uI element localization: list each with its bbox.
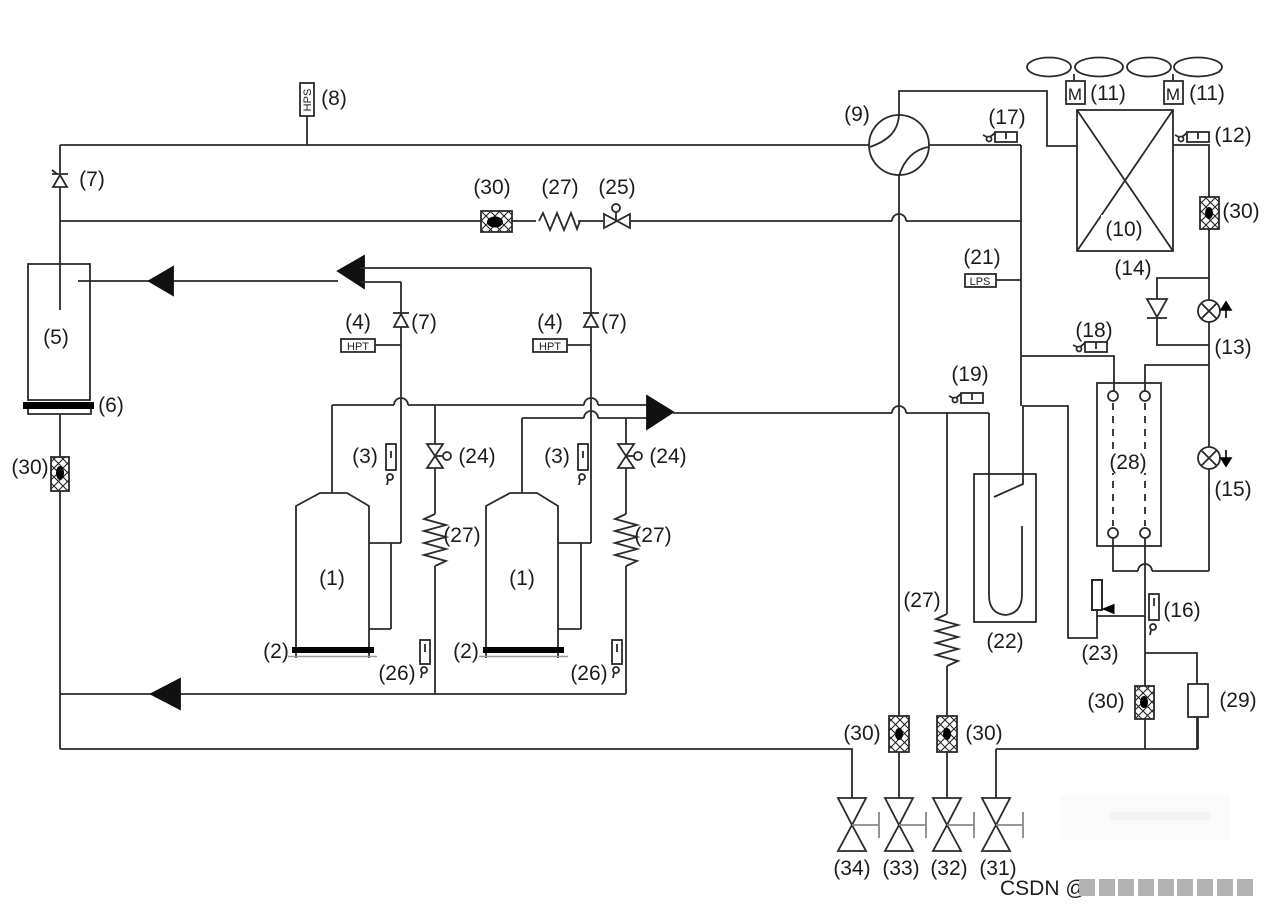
flow arrow left on y=694	[151, 679, 180, 709]
filter drier (30) right bottom	[1135, 686, 1154, 719]
svg-text:(6): (6)	[98, 394, 124, 417]
muffler (29)	[1188, 684, 1208, 717]
flow arrow left on y=281	[149, 267, 173, 295]
wire x=1209 valve (13) to (15)	[1208, 322, 1210, 447]
wire top discharge line y=145 right of valve (9)	[929, 144, 1021, 146]
svg-text:(29): (29)	[1219, 689, 1256, 712]
wire accumulator inlet x=1023	[994, 406, 1023, 497]
svg-text:(5): (5)	[43, 326, 69, 349]
wire (9) top to condenser	[899, 91, 1077, 146]
filter drier (30) bottom 1	[889, 716, 909, 752]
service valve (32)	[933, 798, 974, 851]
svg-text:HPS: HPS	[302, 89, 314, 112]
sensor (19)	[949, 393, 983, 403]
coil (27) bottom	[936, 614, 958, 666]
svg-text:(30): (30)	[1087, 690, 1124, 713]
wire suction line y=413 to accumulator	[673, 412, 989, 414]
svg-text:(16): (16)	[1163, 599, 1200, 622]
svg-text:(1): (1)	[509, 567, 535, 590]
flow arrow right to accumulator	[647, 396, 673, 429]
svg-text:M: M	[1068, 85, 1082, 104]
four-way reversing valve (9)	[869, 115, 929, 176]
svg-text:(7): (7)	[411, 311, 437, 334]
wire bottom line y=749	[60, 749, 852, 798]
svg-text:(32): (32)	[930, 857, 967, 880]
wire jump over x=591 on y=418	[584, 411, 598, 418]
svg-text:M: M	[1166, 85, 1180, 104]
wire jump over x=899 on y=221	[892, 214, 906, 221]
coil (27) comp1	[424, 514, 446, 566]
svg-text:(30): (30)	[1222, 200, 1259, 223]
relief valve (7) left	[52, 170, 68, 187]
svg-text:(3): (3)	[352, 445, 378, 468]
watermark text CSDN	[1000, 877, 1253, 900]
valve (24) comp1	[427, 405, 451, 514]
accumulator (22)	[974, 413, 1036, 622]
wire bottom right line y=749	[996, 717, 1198, 749]
sensor (12)	[1175, 132, 1209, 142]
svg-text:(23): (23)	[1081, 642, 1118, 665]
svg-text:(34): (34)	[833, 857, 870, 880]
wire x=1209 (15) down to y=571	[1208, 469, 1210, 571]
wire suction header comp2 y=418	[522, 417, 647, 419]
svg-text:(13): (13)	[1214, 336, 1251, 359]
wire hx bottom right main x=1145 down	[1144, 538, 1146, 686]
solenoid valve (13)	[1198, 300, 1231, 322]
svg-text:(28): (28)	[1109, 451, 1146, 474]
svg-text:(26): (26)	[378, 662, 415, 685]
svg-text:HPT: HPT	[539, 341, 561, 353]
svg-text:(11): (11)	[1090, 82, 1126, 105]
wire branch y=653 to (29)	[1145, 653, 1197, 684]
solenoid valve (25) on y=221	[604, 204, 630, 228]
svg-text:(21): (21)	[963, 246, 1000, 269]
pressure switch HPS (8)	[300, 83, 314, 145]
svg-text:(3): (3)	[544, 445, 570, 468]
svg-text:(12): (12)	[1214, 124, 1251, 147]
wire jump over x=899 on y=413	[892, 406, 906, 413]
filter drier (30) on y=221	[481, 211, 512, 232]
wire filters to valves	[899, 752, 947, 798]
svg-text:(30): (30)	[473, 176, 510, 199]
sensor (16)	[1149, 594, 1159, 635]
wire filter to bottom line x=1145	[1144, 719, 1146, 749]
expansion device (23)	[1092, 580, 1145, 616]
coil (27) comp2	[615, 514, 637, 566]
fan (11) pair 1	[1027, 58, 1123, 105]
svg-text:(27): (27)	[541, 176, 578, 199]
svg-text:(27): (27)	[903, 589, 940, 612]
svg-text:(25): (25)	[598, 176, 635, 199]
wire x=1209 filter to valve (13)	[1208, 229, 1210, 300]
wire comp1 bypass to y=694	[434, 566, 436, 694]
watermark smudge	[1060, 795, 1230, 840]
compressor (1) second	[486, 418, 591, 658]
filter drier (30) bottom 2	[937, 716, 957, 752]
svg-text:(24): (24)	[649, 445, 686, 468]
wire jump over x=401 on y=405	[394, 398, 408, 405]
pressure transducer HPT comp1	[341, 339, 401, 353]
svg-text:(4): (4)	[537, 311, 563, 334]
expansion valve (15)	[1198, 447, 1231, 469]
svg-text:(30): (30)	[11, 456, 48, 479]
svg-text:(7): (7)	[601, 311, 627, 334]
svg-text:(27): (27)	[443, 524, 480, 547]
pressure switch LPS (21)	[965, 274, 1021, 288]
wire x=947 branch down	[946, 412, 948, 614]
wire condenser right to x=1209	[1173, 145, 1209, 197]
wire comp2 bypass to y=694	[625, 566, 627, 694]
svg-text:(18): (18)	[1075, 319, 1112, 342]
wire branch y=356 to plate hx	[1021, 356, 1114, 391]
filter drier (30) right top	[1200, 197, 1219, 229]
wire (9) bottom vertical x=899	[898, 175, 900, 716]
receiver (5)	[28, 264, 90, 400]
service valve (34)	[838, 798, 879, 851]
svg-text:LPS: LPS	[970, 276, 991, 288]
check valve (14) bypass	[1147, 278, 1209, 345]
wire hx bottom left to (15) line y=571	[1113, 538, 1209, 571]
label (28)	[1104, 449, 1151, 473]
svg-text:(11): (11)	[1189, 82, 1225, 105]
wire y=221 continues to x=1021	[906, 220, 1021, 222]
wire left vertical x=60 receiver to filter to bottom	[59, 414, 61, 749]
wire suction header comp1 y=405	[332, 404, 647, 406]
svg-text:(1): (1)	[319, 567, 345, 590]
valve (24) comp2	[618, 418, 642, 514]
filter drier (30) left	[51, 457, 69, 491]
wire jump over x=1145 on y=571	[1138, 564, 1152, 571]
service valve (31)	[982, 798, 1023, 851]
condenser (10)	[1077, 110, 1173, 251]
pressure transducer HPT comp2	[533, 339, 591, 353]
svg-text:(26): (26)	[570, 662, 607, 685]
coil (27) on y=221	[539, 213, 580, 230]
sensor (17)	[983, 132, 1017, 142]
svg-text:(8): (8)	[321, 87, 347, 110]
svg-text:(30): (30)	[965, 722, 1002, 745]
wire top discharge line y=145 left of valve (9)	[60, 144, 869, 146]
service valve (33)	[885, 798, 926, 851]
svg-text:(14): (14)	[1114, 257, 1151, 280]
temperature sensor (3) comp1	[386, 444, 396, 485]
svg-text:(27): (27)	[634, 524, 671, 547]
sensor (26) comp2	[612, 640, 622, 678]
wire liquid branch y=365 to hx top right	[1145, 365, 1209, 391]
wire discharge header y=282 from comp1	[360, 281, 401, 283]
wire jump over x=591 on y=405	[584, 398, 598, 405]
fan (11) pair 2	[1127, 58, 1222, 105]
svg-text:(24): (24)	[458, 445, 495, 468]
svg-text:HPT: HPT	[347, 341, 369, 353]
svg-text:(30): (30)	[843, 722, 880, 745]
wire injection line x=1022 to (23)	[1022, 406, 1097, 638]
compressor base (2) comp1	[288, 647, 377, 657]
svg-text:(17): (17)	[988, 106, 1025, 129]
wire left vertical x=60 from y145 to receiver	[59, 145, 61, 310]
receiver bottom plate (6)	[23, 402, 94, 414]
svg-text:(15): (15)	[1214, 478, 1251, 501]
wire receiver outlet line y=281	[78, 280, 338, 282]
svg-text:(2): (2)	[453, 640, 479, 663]
wire discharge header y=268 from comp2	[360, 267, 591, 269]
plate heat exchanger (28)	[1097, 383, 1161, 546]
check valve (7) comp1 discharge	[393, 282, 409, 543]
svg-text:(10): (10)	[1105, 218, 1142, 241]
svg-text:(7): (7)	[79, 168, 105, 191]
wire oil/bypass return line y=694	[60, 693, 626, 695]
wire (29) to bottom line	[1196, 717, 1198, 749]
temperature sensor (3) comp2	[578, 444, 588, 485]
svg-text:(2): (2)	[263, 640, 289, 663]
compressor base (2) comp2	[479, 647, 568, 657]
flow arrow left (merge) at x=338	[338, 256, 364, 288]
wire second line y=221	[60, 220, 892, 222]
svg-text:(33): (33)	[882, 857, 919, 880]
svg-text:CSDN @: CSDN @	[1000, 877, 1087, 900]
svg-text:(19): (19)	[951, 363, 988, 386]
svg-text:(9): (9)	[844, 103, 870, 126]
sensor (26) comp1	[420, 640, 430, 678]
wire valve 31 drop	[995, 749, 997, 798]
wire suction return x=1021 down	[1020, 145, 1022, 406]
wire coil to filter x=947	[946, 666, 948, 716]
sensor (18)	[1073, 342, 1107, 352]
check valve (7) comp2 discharge	[583, 268, 599, 543]
svg-text:(22): (22)	[986, 630, 1023, 653]
compressor (1) first	[296, 405, 401, 658]
svg-text:(4): (4)	[345, 311, 371, 334]
